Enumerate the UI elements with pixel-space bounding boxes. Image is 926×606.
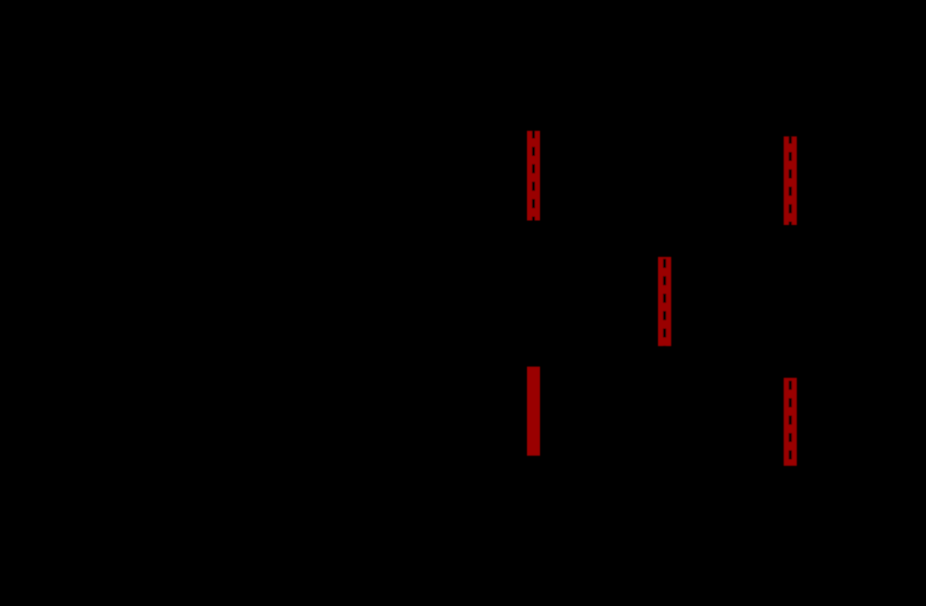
wire bottom rail [450, 499, 850, 501]
wire left branch top lead [533, 105, 535, 131]
wire right branch bottom lead [790, 466, 792, 500]
resistor R5 (highlighted, dashed centerline) [784, 378, 797, 466]
ground [636, 500, 664, 532]
resistor R4 (highlighted, dashed centerline) [784, 136, 797, 225]
wire left branch bottom lead [533, 456, 535, 500]
wire top rail [450, 104, 850, 106]
resistor R2 (highlighted, solid) [527, 367, 540, 456]
wire right mid link [790, 226, 792, 378]
wire middle branch bottom lead [664, 346, 666, 500]
wire middle branch top lead [664, 105, 666, 257]
wire mid link [533, 220, 535, 367]
wire right branch top lead [790, 105, 792, 137]
resistor R3 (highlighted, dashed centerline) [658, 257, 671, 346]
resistor R1 (highlighted, dashed centerline) [527, 131, 540, 221]
